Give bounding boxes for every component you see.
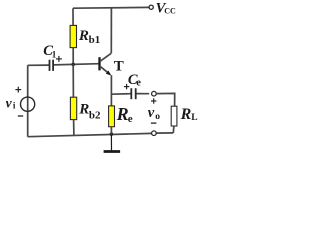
wire: Rb2 top lead	[72, 65, 74, 98]
svg-text:R: R	[78, 101, 89, 117]
svg-text:b2: b2	[89, 109, 101, 121]
label VCC	[156, 0, 176, 16]
wire: vi top lead to C1	[28, 64, 49, 66]
wire: VCC top rail	[73, 6, 149, 9]
resistor Rb2	[70, 97, 76, 119]
wire: bottom rail right segment	[156, 132, 173, 134]
transistor T collector diagonal	[100, 53, 111, 61]
terminal vo bottom	[152, 131, 157, 136]
label C1	[43, 43, 57, 60]
wire: collector vertical to VCC rail	[110, 8, 112, 54]
svg-text:R: R	[78, 28, 89, 44]
resistor Rb1	[70, 25, 76, 47]
svg-text:v: v	[6, 96, 13, 111]
polarity plus of vo	[151, 98, 156, 103]
polarity plus of C1	[56, 56, 62, 62]
polarity plus of Ce	[124, 84, 129, 89]
node base junction dot	[71, 63, 75, 67]
svg-text:T: T	[114, 58, 124, 74]
svg-text:e: e	[136, 77, 141, 88]
wire: Rb1 top lead	[72, 8, 74, 25]
capacitor Ce	[131, 88, 135, 99]
terminal VCC	[149, 5, 153, 9]
svg-text:L: L	[191, 113, 197, 123]
svg-text:R: R	[116, 104, 129, 124]
resistor RL	[171, 106, 177, 126]
svg-text:e: e	[128, 113, 133, 125]
svg-text:CC: CC	[164, 7, 176, 16]
capacitor C1	[50, 60, 54, 71]
polarity plus of vi	[15, 87, 21, 93]
node ground junction dot	[110, 132, 114, 136]
wire: RL bottom lead	[172, 126, 175, 133]
svg-text:i: i	[13, 101, 16, 111]
transistor T emitter diagonal with arrow	[100, 66, 110, 74]
polarity minus of vi	[18, 115, 23, 117]
label Rb1	[78, 28, 100, 46]
svg-text:R: R	[180, 106, 192, 123]
label RL	[180, 106, 198, 123]
label Ce	[128, 72, 141, 89]
wire: emitter vertical down to Re	[110, 75, 112, 106]
svg-text:v: v	[148, 105, 155, 121]
wire: emitter branch to Ce	[111, 93, 130, 96]
terminal vo top	[152, 91, 157, 96]
wire: Ce to vo terminal	[136, 93, 149, 95]
ground	[104, 134, 121, 151]
label vo	[148, 105, 161, 122]
wire: Re bottom lead to ground node	[110, 127, 112, 134]
wire: bottom ground rail (left of vo terminal)	[28, 133, 152, 136]
source vi circle	[21, 97, 35, 111]
label T	[114, 58, 124, 74]
resistor Re	[109, 106, 115, 127]
label vi	[6, 96, 16, 111]
wire: vo terminal to RL corner	[156, 93, 174, 106]
polarity minus of vo	[151, 122, 157, 124]
transistor T base bar	[98, 57, 100, 70]
wire: base wire from C1 to transistor	[54, 64, 99, 65]
svg-text:o: o	[155, 112, 160, 122]
wire: Rb2 bottom lead	[73, 120, 75, 136]
wire: Rb1 bottom lead to base node	[72, 48, 74, 65]
svg-text:b1: b1	[89, 34, 101, 46]
label Re	[116, 104, 133, 125]
svg-text:1: 1	[52, 50, 57, 60]
wire: vi vertical (left branch)	[27, 65, 29, 136]
label Rb2	[78, 101, 101, 121]
